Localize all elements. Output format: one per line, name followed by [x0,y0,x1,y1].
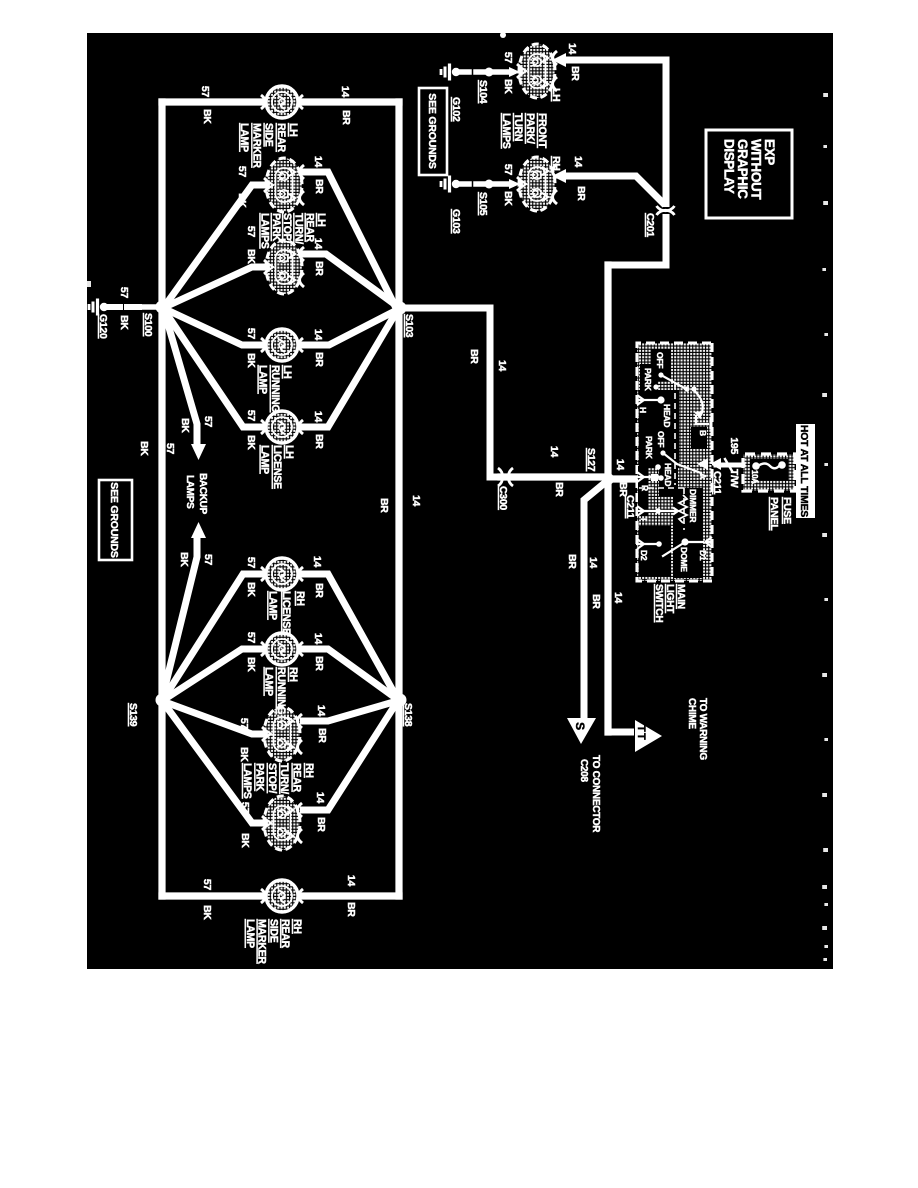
svg-text:DISPLAY: DISPLAY [722,139,737,194]
svg-text:57: 57 [245,632,257,644]
svg-text:LAMPS: LAMPS [184,475,195,509]
wire S127 up to light switch terminal R [608,475,635,482]
wire top rail S103-S138 (14 BR) [395,102,402,896]
svg-text:57: 57 [502,52,514,64]
svg-text:14: 14 [312,156,324,168]
wire lamp2 to S100 (57 BK) [164,185,267,307]
svg-text:C211: C211 [624,495,636,519]
svg-text:BR: BR [553,482,565,497]
svg-text:PARK: PARK [270,213,282,242]
splice S104 [485,68,494,77]
svg-text:14: 14 [315,705,327,717]
svg-text:57: 57 [199,86,211,98]
svg-text:57: 57 [245,226,257,238]
lamp RH LICENSE (single) [266,558,298,590]
svg-text:SWITCH: SWITCH [653,584,664,622]
svg-text:14: 14 [548,446,560,458]
fuse panel dashed box [743,454,795,491]
svg-text:MARKER: MARKER [250,123,262,168]
svg-text:FUSE: FUSE [781,497,793,524]
svg-text:BK: BK [138,441,150,456]
switch dome contact [681,538,688,545]
svg-text:14: 14 [572,156,584,168]
wire S127 horizontal run (C201 left / warning chime right) [604,265,611,732]
svg-text:A: A [698,473,708,479]
svg-text:BK: BK [179,418,191,433]
arrow into LH front lamp [552,53,566,67]
svg-text:PARK: PARK [253,763,265,792]
svg-text:57: 57 [236,166,248,178]
svg-text:MAIN: MAIN [675,584,686,609]
svg-text:57: 57 [201,879,213,891]
ground G103 symbol [452,180,460,188]
wire lamp4 to S100/S103 [165,309,267,345]
svg-text:SEE GROUNDS: SEE GROUNDS [108,482,120,558]
svg-text:RH: RH [303,763,315,778]
svg-text:D2: D2 [639,550,649,561]
svg-text:BR: BR [575,186,587,201]
svg-text:57: 57 [245,328,257,340]
lamp RH FRONT PARK/TURN (double) [519,157,555,211]
connector C201 symbol [657,206,675,211]
svg-text:HOT AT ALL TIMES: HOT AT ALL TIMES [798,425,809,517]
svg-text:H: H [638,407,648,413]
svg-text:I: I [639,518,649,520]
svg-text:14: 14 [312,633,324,645]
callout box SEE GROUNDS (rear) [99,480,132,560]
svg-text:BR: BR [313,179,325,194]
svg-text:REAR: REAR [291,763,303,792]
svg-text:BR: BR [590,594,602,609]
svg-text:DOME: DOME [679,547,689,572]
svg-text:LH: LH [283,445,295,459]
switch terminal A arrow (wired from fuse) [697,458,708,470]
callout box SEE GROUNDS (front) [419,88,447,175]
svg-text:LAMP: LAMP [238,123,250,152]
svg-text:C201: C201 [644,213,656,237]
wire backup lamps arrow to S139 [162,538,197,699]
arrow into RH front lamp [552,169,566,183]
lamp LH RUNNING (single) [266,329,298,361]
wire S127 to S arrow (to connector C208) [584,481,607,718]
svg-text:TO WARNING: TO WARNING [697,698,708,760]
svg-text:BR: BR [315,817,327,832]
svg-text:57: 57 [202,554,214,566]
svg-text:14: 14 [410,495,422,507]
wire S100 to backup lamps arrow [163,307,197,444]
switch terminal I [636,506,644,516]
svg-text:SIDE: SIDE [263,123,275,147]
wire lamp3 to S100/S103 [165,267,267,307]
wire S100 to ground G120 (57 BK) [141,304,156,310]
svg-text:BK: BK [502,191,514,206]
arrow TT to warning chime [635,720,662,752]
lamp LH REAR TURN/STOP/PARK B (double) [266,240,302,294]
switch terminal B [710,420,713,428]
svg-text:RH: RH [291,919,303,934]
svg-text:LAMP: LAMP [266,591,278,620]
svg-text:BR: BR [313,352,325,367]
svg-text:14: 14 [311,556,323,568]
wire branch to RH front lamp drop [564,176,665,205]
svg-text:S104: S104 [477,80,489,104]
svg-text:PANEL: PANEL [768,497,780,531]
lamp LH REAR SIDE MARKER (single) [266,86,298,118]
svg-text:STOP/: STOP/ [281,213,293,243]
svg-text:BK: BK [178,552,190,567]
svg-text:LICENSE: LICENSE [271,445,283,489]
svg-text:PARK/: PARK/ [524,113,536,144]
svg-text:REAR: REAR [275,123,287,152]
fuse element 10A [750,459,788,480]
svg-text:LAMPS: LAMPS [241,763,253,799]
wire lamp9 to S139/S138 [163,702,265,823]
switch terminal R [636,472,644,482]
svg-text:CHIME: CHIME [686,698,697,729]
svg-text:BK: BK [236,193,248,208]
svg-text:RH: RH [294,591,306,606]
svg-text:C300: C300 [497,486,509,510]
svg-text:BK: BK [502,79,514,94]
wire RH front lamp to S105/G103 (57 BK) [509,179,520,189]
svg-text:BR: BR [566,554,578,569]
callout box EXP WITHOUT GRAPHIC DISPLAY [706,130,792,218]
wire lamp7 to S139/S138 [165,649,267,699]
splice S127 [602,473,614,485]
svg-text:SIDE: SIDE [267,919,279,943]
lamp RH RUNNING (single) [266,633,298,665]
svg-text:REAR: REAR [304,213,316,242]
splice S100 [156,301,169,314]
svg-text:14: 14 [612,592,624,604]
splice S138 [394,694,407,707]
svg-text:S: S [573,722,587,730]
svg-text:LICENSE: LICENSE [280,591,292,635]
svg-text:T: T [635,725,647,732]
svg-text:LAMP: LAMP [263,667,275,696]
svg-text:SEE GROUNDS: SEE GROUNDS [426,93,438,169]
svg-text:PARK: PARK [644,436,654,460]
arrow backup lamps right [191,522,206,538]
svg-text:T: T [635,733,647,740]
svg-text:BACKUP: BACKUP [197,473,208,515]
svg-text:LH: LH [281,365,293,379]
svg-text:S105: S105 [477,192,489,216]
svg-text:RH: RH [550,156,562,171]
wire right end (lamp10 branch) [162,892,399,899]
wire S103 up and right to C300 (14 BR) [399,308,510,477]
svg-text:BR: BR [316,728,328,743]
ground G120 symbol [100,303,108,311]
svg-text:TURN: TURN [512,113,524,141]
svg-text:MARKER: MARKER [256,919,268,964]
svg-text:BK: BK [201,905,213,920]
svg-text:57: 57 [238,718,250,730]
switch dimmer rheostat [674,383,676,485]
svg-text:14: 14 [339,86,351,98]
wire lamp6 to S139/S138 [164,574,267,698]
arrow backup lamps left [191,444,206,460]
svg-text:G103: G103 [450,209,462,234]
lamp RH REAR SIDE MARKER (single) [266,880,298,912]
svg-text:57: 57 [164,443,176,455]
svg-text:S127: S127 [585,448,597,472]
svg-text:PARK: PARK [643,368,653,392]
arrow S to connector C208 [567,718,596,744]
svg-text:57: 57 [245,557,257,569]
wire C300 up to S127 [501,473,607,480]
svg-text:S103: S103 [403,314,415,338]
svg-text:B: B [698,430,708,436]
wire left end (lamp1 branch) [162,98,399,105]
svg-text:BK: BK [201,109,213,124]
main light switch U1 body [637,343,712,581]
svg-text:LAMP: LAMP [259,445,271,474]
svg-text:STOP/: STOP/ [266,763,278,793]
svg-text:14: 14 [614,459,626,471]
splice S105 [485,180,494,189]
svg-text:LH: LH [550,88,562,101]
svg-text:G102: G102 [450,97,462,122]
svg-text:DIMMER: DIMMER [688,489,698,522]
svg-text:BR: BR [340,110,352,125]
svg-text:C208: C208 [578,759,589,782]
scan speckles near top edge [823,93,828,97]
svg-text:BK: BK [239,833,251,848]
svg-text:OFF: OFF [656,431,666,447]
svg-text:BR: BR [569,66,581,81]
svg-text:57: 57 [118,287,130,299]
svg-text:14: 14 [345,875,357,887]
lamp RH REAR TURN/STOP/PARK A (double) [264,707,300,761]
wire lamp8 to S139/S138 [165,702,265,734]
svg-text:TURN/: TURN/ [278,763,290,794]
svg-text:LIGHT: LIGHT [664,584,675,614]
svg-text:BK: BK [238,747,250,762]
switch terminal D1 [705,537,713,547]
svg-text:14: 14 [587,557,599,569]
svg-text:57: 57 [502,164,514,176]
svg-text:57: 57 [245,410,257,422]
svg-text:D1: D1 [698,550,708,561]
svg-text:HEAD: HEAD [662,404,672,427]
black diagram background [87,33,833,969]
svg-text:RUNNING: RUNNING [275,667,287,714]
svg-text:BK: BK [118,315,130,330]
svg-text:HEAD: HEAD [663,463,673,486]
lamp LH LICENSE (single) [266,411,298,443]
svg-text:BK: BK [245,582,257,597]
svg-text:BR: BR [313,656,325,671]
switch terminal D2 [636,539,644,549]
wire up to C201 corner [605,214,666,265]
splice S103 [394,302,407,315]
ground G102 symbol [452,68,460,76]
wire to TT arrow (to warning chime) [608,729,634,736]
svg-text:TURN/: TURN/ [292,213,304,244]
svg-text:BK: BK [245,435,257,450]
svg-text:S139: S139 [127,703,139,727]
svg-text:BR: BR [345,902,357,917]
svg-text:OFF: OFF [655,352,665,368]
svg-text:LAMPS: LAMPS [500,113,512,149]
svg-text:14: 14 [314,792,326,804]
switch terminal H [636,395,644,405]
svg-text:LH: LH [287,123,299,137]
svg-text:S100: S100 [142,313,154,337]
svg-text:57: 57 [202,416,214,428]
wire LH front lamp to S104/G102 (57 BK) [509,67,520,77]
svg-text:195: 195 [728,437,740,454]
callout HOT AT ALL TIMES [796,424,815,518]
svg-text:BK: BK [245,657,257,672]
svg-text:14: 14 [566,43,578,55]
connector C300 symbol [508,468,513,486]
svg-text:FRONT: FRONT [536,113,548,149]
svg-text:S138: S138 [402,703,414,727]
svg-text:T/W: T/W [728,469,740,488]
wire C201 left to LH front lamp drop [564,60,666,207]
svg-text:LH: LH [315,213,327,227]
svg-text:REAR: REAR [279,919,291,948]
wire bottom rail S100-S139 (57 BK) [158,102,165,896]
svg-text:BR: BR [468,349,480,364]
svg-text:BK: BK [245,249,257,264]
lamp LH REAR TURN/STOP/PARK A (double) [266,158,302,212]
wire fuse to switch terminal A (195 T/W) [716,463,743,468]
wire lamp5 to S100/S103 [164,310,267,427]
lamp RH REAR TURN/STOP/PARK B (double) [264,796,300,850]
splice S139 [156,694,169,707]
svg-text:TO CONNECTOR: TO CONNECTOR [590,755,601,833]
arrow into terminal A [710,458,721,470]
svg-text:BR: BR [313,434,325,449]
svg-text:57: 57 [239,802,251,814]
svg-text:14: 14 [312,329,324,341]
svg-text:LAMP: LAMP [257,365,269,394]
svg-text:BK: BK [245,353,257,368]
svg-text:BR: BR [313,583,325,598]
svg-text:RUNNING: RUNNING [269,365,281,412]
svg-text:LAMPS: LAMPS [259,213,271,249]
svg-text:LAMP: LAMP [244,919,256,948]
svg-text:14: 14 [496,360,508,372]
svg-text:14: 14 [312,411,324,423]
svg-text:RH: RH [287,667,299,682]
svg-text:BR: BR [378,498,390,513]
svg-text:BR: BR [313,261,325,276]
svg-text:G120: G120 [97,314,109,339]
lamp LH FRONT PARK/TURN (double) [519,44,555,98]
svg-text:10A: 10A [750,470,759,484]
